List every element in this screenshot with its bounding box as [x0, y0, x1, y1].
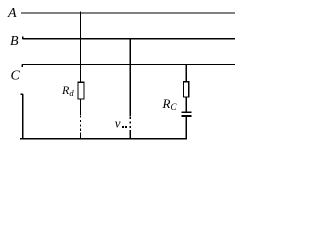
wire left stub vertical [22, 94, 24, 139]
wire branch 1 vertical from bus A to resistor R_d [80, 11, 82, 82]
wire branch 2 vertical from bus B [129, 39, 131, 117]
svg-text:B: B [10, 34, 19, 49]
wire branch 1 bottom solid to neutral [80, 133, 82, 140]
tick at left end of bus C [21, 65, 23, 68]
wire below resistor R_d solid [80, 99, 82, 115]
resistor R_C body [184, 82, 189, 97]
svg-text:C: C [11, 69, 21, 84]
wire phase bus C [22, 64, 235, 66]
tick at top of left stub [21, 93, 24, 95]
wire branch 2 dashed section [129, 117, 131, 133]
wire branch 2 bottom solid to neutral [129, 133, 131, 140]
resistor R_d body [78, 82, 84, 99]
tick at left end of bus B [22, 36, 24, 39]
wire phase bus B [23, 38, 236, 40]
capacitor top plate [182, 111, 192, 113]
wire below capacitor to neutral [185, 117, 187, 139]
wire phase bus A [21, 12, 235, 14]
dots after v label [122, 126, 124, 128]
svg-text:v: v [115, 116, 121, 131]
capacitor bottom plate [182, 115, 192, 117]
svg-text:A: A [7, 6, 17, 21]
wire between resistor R_C and capacitor [185, 97, 187, 112]
wire branch 1 dashed section [80, 116, 82, 133]
wire neutral bottom line [20, 138, 187, 140]
wire branch 3 vertical from bus C to resistor R_C [185, 65, 187, 82]
